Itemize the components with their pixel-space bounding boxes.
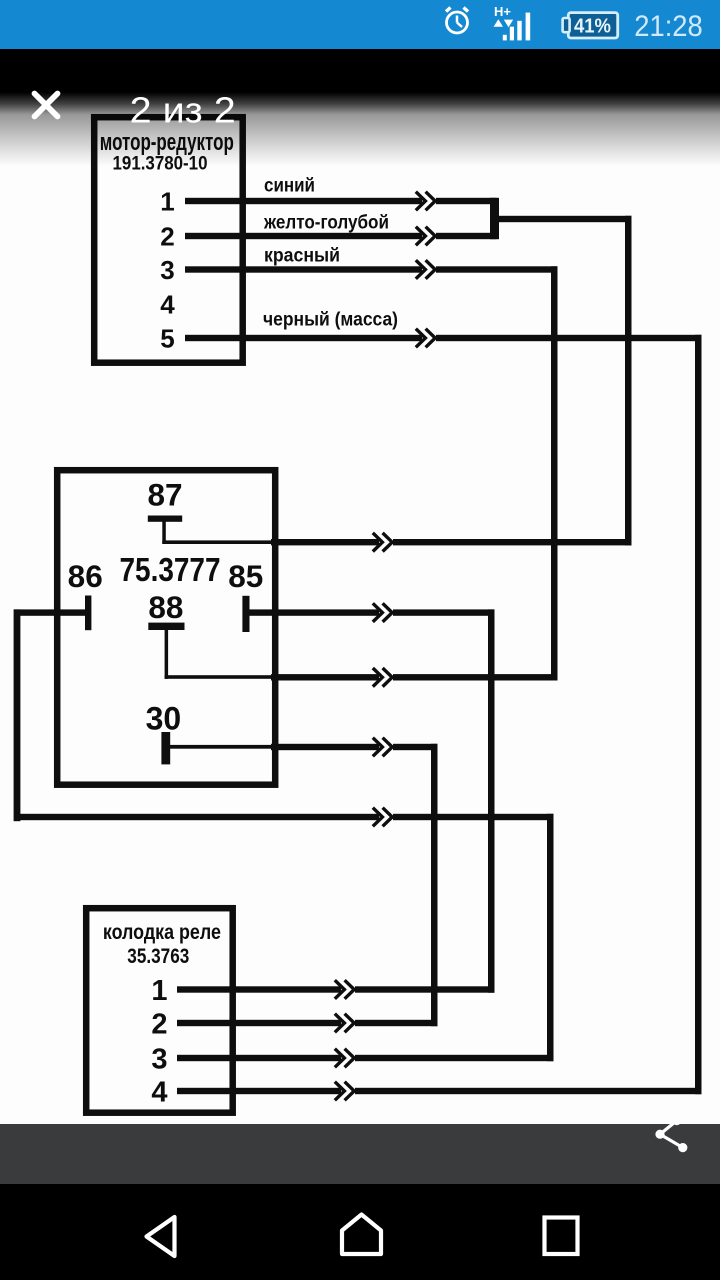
relay pin 85 bar bbox=[242, 596, 249, 632]
relay pin 87 lead vertical bbox=[162, 521, 166, 544]
svg-text:4: 4 bbox=[151, 1077, 167, 1109]
wire relay 86 bottom horizontal bbox=[14, 814, 554, 820]
svg-text:75.3777: 75.3777 bbox=[120, 551, 221, 588]
chevron колодка 1 bbox=[335, 980, 355, 999]
chevron колодка 3 bbox=[335, 1049, 355, 1068]
connector chevrons bbox=[335, 192, 436, 1101]
chevron wire2 желто-голубой bbox=[416, 227, 436, 246]
chevron wire 87 bbox=[373, 533, 393, 552]
svg-text:2 из 2: 2 из 2 bbox=[130, 90, 236, 131]
svg-text:21:28: 21:28 bbox=[634, 10, 703, 43]
wire relay 88 output bbox=[271, 674, 558, 680]
svg-text:85: 85 bbox=[228, 558, 263, 594]
svg-text:черный (масса): черный (масса) bbox=[263, 310, 398, 331]
wire pin1 синий bbox=[185, 198, 497, 204]
wire колодка pin1 bbox=[177, 986, 495, 992]
chevron колодка 4 bbox=[335, 1082, 355, 1101]
junction bar wires 1-2 bbox=[490, 198, 499, 239]
wire junction to relay 87 vertical bbox=[625, 216, 632, 546]
battery icon 41% bbox=[563, 13, 618, 38]
svg-text:колодка реле: колодка реле bbox=[103, 920, 221, 944]
svg-text:1: 1 bbox=[160, 187, 174, 217]
svg-text:желто-голубой: желто-голубой bbox=[263, 213, 389, 234]
svg-text:3: 3 bbox=[160, 255, 174, 285]
svg-text:H+: H+ bbox=[494, 4, 511, 19]
chevron wire3 красный bbox=[416, 260, 436, 279]
chevron колодка 2 bbox=[335, 1014, 355, 1033]
connector box колодка реле 35.3763 bbox=[86, 908, 233, 1112]
svg-text:1: 1 bbox=[151, 975, 167, 1007]
nav home icon bbox=[342, 1215, 381, 1255]
wire pin5 черный масса bbox=[185, 335, 702, 341]
bottom toolbar bbox=[0, 1124, 720, 1184]
svg-text:87: 87 bbox=[147, 477, 182, 513]
wire junction to relay 87 horizontal bbox=[499, 216, 632, 222]
wire колодка pin3 bbox=[177, 1055, 554, 1061]
svg-text:синий: синий bbox=[264, 176, 315, 197]
navigation bar bbox=[0, 1184, 720, 1280]
relay pin 87 lead horizontal bbox=[162, 540, 274, 544]
wire relay 85 output bbox=[246, 609, 495, 615]
wire колодка pin2 bbox=[177, 1020, 438, 1026]
svg-text:красный: красный bbox=[264, 246, 340, 267]
relay pin 87 bar bbox=[148, 516, 182, 522]
status bar bbox=[0, 0, 720, 49]
wire relay 86 outer-left vertical bbox=[14, 609, 21, 821]
wire relay 87 output bbox=[271, 539, 632, 545]
chevron wire 88 bbox=[373, 668, 393, 687]
connector box мотор-редуктор 191.3780-10 bbox=[94, 117, 243, 363]
alarm clock icon bbox=[446, 8, 468, 34]
chevron wire5 черный bbox=[416, 329, 436, 348]
svg-text:35.3763: 35.3763 bbox=[127, 945, 189, 968]
top scrim gradient bbox=[0, 49, 720, 166]
chevron wire 85 bbox=[373, 603, 393, 622]
wire pin3 красный bbox=[185, 266, 558, 272]
chevron wire 30 bbox=[373, 738, 393, 757]
chevron wire 86 bbox=[373, 808, 393, 827]
relay pin 30 bar bbox=[161, 732, 170, 764]
svg-text:2: 2 bbox=[160, 222, 174, 252]
wire relay 30 output bbox=[271, 744, 438, 750]
wire красный vertical to relay 88 bbox=[551, 266, 558, 680]
svg-text:86: 86 bbox=[68, 558, 103, 594]
wire масса vertical to колодка pin4 bbox=[695, 335, 702, 1094]
chevron wire1 синий bbox=[416, 192, 436, 211]
svg-text:5: 5 bbox=[160, 324, 174, 354]
close icon bbox=[35, 94, 58, 117]
wire relay 86 left bbox=[14, 609, 86, 615]
share icon bbox=[655, 1116, 687, 1152]
relay pin 88 lead vertical bbox=[165, 629, 169, 679]
relay pin 30 lead horizontal bbox=[170, 745, 274, 749]
relay box 75.3777 bbox=[57, 470, 275, 785]
wire relay 85 vertical to колодка pin1 bbox=[488, 609, 495, 992]
svg-text:30: 30 bbox=[146, 701, 182, 737]
relay pin 88 lead horizontal bbox=[165, 675, 274, 679]
relay pin 86 bar bbox=[85, 596, 91, 631]
wire колодка pin4 bbox=[177, 1088, 702, 1094]
relay pin 88 bar bbox=[148, 623, 184, 630]
wire pin2 желто-голубой bbox=[185, 233, 497, 239]
svg-text:41%: 41% bbox=[574, 15, 611, 38]
svg-text:4: 4 bbox=[160, 289, 175, 319]
nav recents icon bbox=[545, 1218, 578, 1255]
nav back icon bbox=[147, 1217, 175, 1256]
svg-text:3: 3 bbox=[151, 1044, 167, 1076]
wire relay 30 vertical to колодка pin2 bbox=[431, 744, 438, 1026]
svg-text:88: 88 bbox=[148, 589, 183, 625]
wire relay 86 vertical to колодка pin3 bbox=[547, 814, 554, 1061]
svg-text:2: 2 bbox=[151, 1009, 167, 1041]
signal icon H+ bbox=[494, 4, 531, 40]
